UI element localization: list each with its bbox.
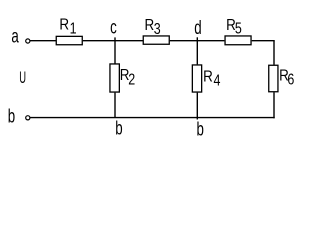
svg-text:1: 1	[70, 20, 77, 38]
svg-text:6: 6	[287, 71, 294, 89]
svg-text:R: R	[145, 17, 155, 34]
terminal b	[26, 116, 30, 120]
label R6	[279, 68, 289, 85]
resistor R6	[269, 65, 278, 92]
svg-text:4: 4	[214, 72, 221, 90]
svg-text:b: b	[8, 106, 15, 127]
resistor R3	[143, 36, 169, 44]
wire R4 to bottom rail	[196, 93, 198, 120]
svg-text:R: R	[59, 17, 69, 34]
terminal a	[26, 39, 30, 43]
node a label	[11, 26, 19, 47]
wire R2 to bottom rail	[114, 93, 116, 118]
node d	[196, 37, 198, 64]
svg-text:U: U	[19, 68, 26, 86]
svg-text:b: b	[115, 118, 122, 139]
label R5	[226, 17, 236, 34]
label R4	[203, 69, 213, 86]
right branch wire bottom	[273, 92, 275, 118]
resistor R5	[225, 36, 251, 45]
resistor R4	[192, 65, 201, 92]
resistor R1	[56, 36, 82, 44]
wire R1 to R3	[83, 40, 143, 42]
resistor R2	[110, 64, 119, 92]
bottom rail	[30, 117, 275, 119]
label R3	[145, 17, 155, 34]
node c	[114, 37, 116, 63]
svg-text:5: 5	[235, 20, 242, 38]
svg-text:R: R	[203, 69, 213, 86]
svg-text:d: d	[194, 18, 201, 39]
wire R5 to right corner	[252, 40, 275, 42]
svg-text:b: b	[197, 119, 204, 140]
source label U	[19, 68, 26, 86]
node d label	[194, 18, 201, 39]
svg-text:c: c	[110, 17, 117, 38]
label R2	[120, 67, 130, 84]
node b label under c branch	[115, 118, 122, 139]
right branch wire top	[273, 41, 275, 65]
wire a to R1	[30, 40, 56, 42]
node b label under d branch	[197, 119, 204, 140]
terminal b label	[8, 106, 15, 127]
label R1	[59, 17, 69, 34]
node c label	[110, 17, 117, 38]
wire R3 to R5	[170, 40, 225, 42]
svg-text:2: 2	[128, 71, 135, 89]
svg-text:3: 3	[154, 21, 161, 39]
svg-text:a: a	[11, 26, 19, 47]
